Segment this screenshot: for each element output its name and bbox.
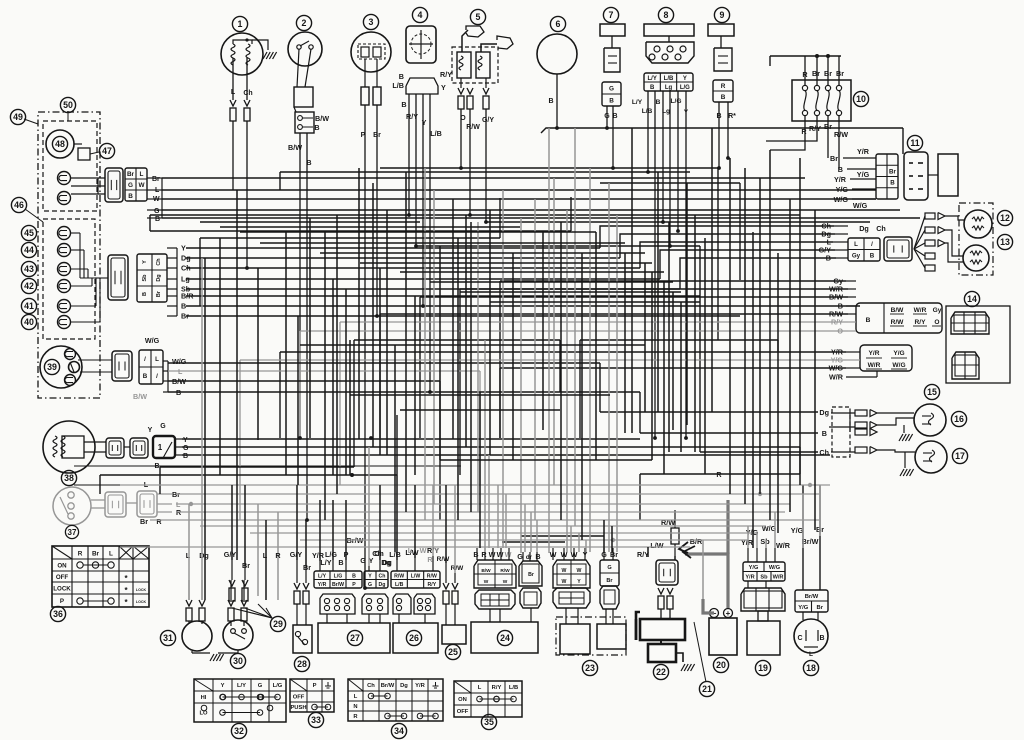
lamp connector block b bbox=[884, 237, 912, 261]
svg-text:R: R bbox=[716, 470, 722, 479]
wire vertical x669 harness bbox=[668, 222, 670, 452]
flasher relay 4 bbox=[412, 7, 427, 22]
connector block 14 labels bbox=[856, 303, 942, 333]
svg-text:L: L bbox=[231, 89, 236, 96]
svg-text:4: 4 bbox=[418, 10, 423, 20]
ground 30 bbox=[218, 650, 238, 653]
svg-text:26: 26 bbox=[409, 633, 419, 643]
svg-text:W/G: W/G bbox=[853, 201, 868, 210]
wire vertical x658 harness bbox=[657, 172, 659, 412]
bullets above 31 bbox=[186, 600, 192, 606]
svg-text:W: W bbox=[484, 579, 489, 585]
svg-text:21: 21 bbox=[702, 684, 712, 694]
svg-text:B: B bbox=[866, 317, 871, 324]
wire vertical x202 to bottom units bbox=[201, 258, 203, 600]
svg-text:R/W: R/W bbox=[891, 319, 905, 326]
wires into 27 bbox=[326, 614, 328, 623]
wire vertical x513 harness bbox=[512, 253, 514, 460]
wire horizontal y243 step bbox=[260, 242, 625, 244]
wires 39 to connector bbox=[78, 359, 112, 361]
circled label 36 bbox=[50, 606, 65, 621]
wire vertical x748 to bottom units bbox=[747, 526, 749, 548]
svg-text:Br: Br bbox=[140, 517, 148, 526]
wire vertical x537 to bottom units bbox=[536, 520, 538, 552]
connector above 19 bbox=[741, 588, 785, 611]
svg-text:Dg: Dg bbox=[379, 582, 386, 588]
svg-text:Y: Y bbox=[142, 260, 148, 264]
wire vertical x395 harness bbox=[394, 345, 396, 552]
wire vertical x310 harness bbox=[309, 218, 311, 438]
wire vertical x232 to bottom units bbox=[231, 485, 233, 560]
plug b 38 bbox=[130, 438, 148, 458]
wire vertical x681 harness bbox=[680, 302, 682, 452]
leader to 21 bbox=[694, 622, 706, 682]
wire vertical x298 harness bbox=[297, 316, 299, 485]
wire vertical x695 harness bbox=[694, 215, 696, 452]
circled label 11 bbox=[907, 135, 922, 150]
pickup coil box 47 bbox=[78, 148, 90, 160]
svg-text:G: G bbox=[609, 85, 614, 92]
wire vertical x346 harness bbox=[345, 289, 347, 475]
wire horizontal y232 step bbox=[240, 231, 596, 233]
lamp plug pairs bbox=[855, 410, 867, 416]
wire y183 bbox=[600, 182, 740, 184]
battery terminals bbox=[710, 609, 719, 618]
svg-text:G: G bbox=[160, 423, 166, 430]
plug a 38 bbox=[106, 438, 124, 458]
svg-text:B: B bbox=[656, 99, 661, 106]
wire vertical x612 to bottom units bbox=[611, 526, 613, 552]
wire y246 bbox=[416, 245, 700, 247]
wire vertical x760 harness bbox=[759, 178, 761, 494]
svg-text:R: R bbox=[721, 83, 726, 90]
alternator/CDI unit group outer dash-dot box (49) bbox=[38, 112, 100, 398]
svg-text:7: 7 bbox=[609, 10, 614, 20]
mid bus bracket bbox=[176, 248, 178, 316]
svg-text:B: B bbox=[890, 180, 895, 187]
svg-text:L: L bbox=[854, 241, 858, 248]
circled label 24 bbox=[497, 630, 512, 645]
connector G B under 7 bbox=[602, 82, 621, 106]
svg-text:22: 22 bbox=[656, 667, 666, 677]
svg-text:+: + bbox=[726, 609, 731, 618]
top bus L bbox=[162, 189, 876, 191]
wire vertical x453 harness bbox=[452, 199, 454, 439]
svg-text:B/W: B/W bbox=[481, 568, 491, 574]
ground under 16 bbox=[903, 425, 905, 433]
svg-text:B: B bbox=[338, 558, 343, 567]
svg-text:Ch: Ch bbox=[876, 224, 886, 233]
wire horizontal y302 step bbox=[490, 301, 700, 303]
bullet connectors under 1 bbox=[230, 100, 236, 106]
Y/R group lines bbox=[280, 351, 846, 353]
wire vertical x490 harness bbox=[489, 210, 491, 455]
svg-text:Y/G: Y/G bbox=[749, 565, 759, 571]
horn 30 (front) bbox=[223, 620, 253, 650]
svg-text:10: 10 bbox=[856, 94, 866, 104]
svg-text:33: 33 bbox=[311, 715, 321, 725]
wire vertical x434 harness bbox=[433, 190, 435, 504]
svg-text:Br: Br bbox=[303, 563, 311, 572]
wires 4 down bbox=[408, 94, 410, 215]
svg-text:W: W bbox=[503, 579, 508, 585]
svg-text:B: B bbox=[155, 216, 160, 223]
svg-text:Br: Br bbox=[817, 605, 824, 611]
svg-text:39: 39 bbox=[47, 362, 57, 372]
plug leads top of 5 bbox=[462, 30, 468, 52]
left lower buses W/G L B/W B bbox=[168, 362, 600, 364]
svg-text:46: 46 bbox=[14, 200, 24, 210]
svg-text:G/Y: G/Y bbox=[224, 550, 237, 559]
svg-text:49: 49 bbox=[13, 112, 23, 122]
svg-text:L/W: L/W bbox=[411, 574, 421, 580]
svg-text:B: B bbox=[650, 85, 655, 91]
circled label 17 bbox=[952, 448, 967, 463]
box 23b bbox=[597, 624, 626, 649]
E-coil a bbox=[58, 172, 71, 185]
bullets under 5 bbox=[458, 88, 464, 94]
svg-text:14: 14 bbox=[967, 294, 977, 304]
svg-text:Y: Y bbox=[148, 427, 153, 434]
svg-text:42: 42 bbox=[24, 281, 34, 291]
svg-text:12: 12 bbox=[1000, 213, 1010, 223]
circled label 30 bbox=[230, 653, 245, 668]
wire y215 long bbox=[150, 214, 800, 216]
svg-text:L/B: L/B bbox=[392, 81, 404, 90]
svg-text:G: G bbox=[128, 182, 133, 189]
turn switch unit 27 bbox=[318, 623, 390, 653]
bullets above 28 bbox=[294, 583, 300, 589]
rear brake switch 7 bbox=[603, 7, 618, 22]
wire vertical x425 harness bbox=[424, 168, 426, 520]
meter lamps group 12 13 bbox=[959, 203, 993, 275]
bus bracket wires bbox=[161, 178, 163, 218]
neutral lamp 16 bbox=[914, 404, 946, 436]
wire vertical x387 harness bbox=[386, 210, 388, 455]
svg-text:Br: Br bbox=[242, 561, 250, 570]
svg-text:30: 30 bbox=[233, 656, 243, 666]
svg-text:O: O bbox=[934, 319, 939, 326]
svg-text:B: B bbox=[142, 292, 148, 296]
svg-text:L/B: L/B bbox=[664, 76, 674, 82]
svg-text:35: 35 bbox=[484, 717, 494, 727]
wire vertical x652 harness bbox=[651, 272, 653, 460]
svg-text:13: 13 bbox=[1000, 237, 1010, 247]
svg-text:23: 23 bbox=[585, 663, 595, 673]
svg-text:B: B bbox=[183, 453, 188, 460]
svg-text:LOCK: LOCK bbox=[136, 600, 147, 604]
circled label 25 bbox=[445, 644, 460, 659]
svg-text:36: 36 bbox=[53, 609, 63, 619]
arrow marks bbox=[683, 546, 695, 558]
svg-text:W: W bbox=[562, 568, 567, 574]
wire vertical x586 to bottom units bbox=[585, 540, 587, 552]
svg-text:Y/G: Y/G bbox=[791, 526, 804, 535]
svg-text:HI: HI bbox=[201, 695, 207, 701]
circled label 47 bbox=[99, 143, 114, 158]
svg-text:W: W bbox=[562, 579, 567, 585]
svg-text:W/G: W/G bbox=[769, 565, 780, 571]
svg-text:R/Y: R/Y bbox=[428, 582, 437, 588]
wire vertical x333 to bottom units bbox=[332, 500, 334, 560]
svg-text:R/Y: R/Y bbox=[492, 685, 502, 691]
wire vertical x664 harness bbox=[663, 282, 665, 474]
svg-text:Y: Y bbox=[183, 437, 188, 444]
wire horizontal y253 step bbox=[320, 252, 645, 254]
svg-text:31: 31 bbox=[163, 633, 173, 643]
svg-text:R/W: R/W bbox=[834, 130, 848, 139]
wire vertical x579 to bottom units bbox=[578, 533, 580, 552]
wire vertical x815 harness bbox=[814, 210, 816, 530]
dimmer switch table 32 bbox=[194, 679, 286, 722]
wire vertical x521 harness bbox=[520, 218, 522, 553]
wire vertical x346 to bottom units bbox=[345, 500, 347, 560]
brake light unit 19 bbox=[747, 621, 780, 655]
svg-text:29: 29 bbox=[273, 619, 283, 629]
svg-text:W: W bbox=[420, 546, 427, 555]
connector housing 39 bbox=[112, 351, 132, 381]
svg-text:OFF: OFF bbox=[56, 574, 69, 581]
circled label 14 bbox=[964, 291, 979, 306]
lamp feed wires from left bbox=[690, 411, 818, 413]
regulator 24 bbox=[471, 622, 538, 653]
G Br label block for 23 bbox=[600, 560, 619, 586]
wire vertical x297 to bottom units bbox=[296, 485, 298, 560]
wire vertical x350 harness bbox=[349, 340, 351, 475]
svg-text:L/B: L/B bbox=[395, 582, 404, 588]
svg-text:R/W: R/W bbox=[451, 565, 465, 572]
svg-text:R: R bbox=[275, 551, 281, 560]
six pickup E-coils 40-45 bbox=[58, 227, 71, 240]
circled label 12 bbox=[997, 210, 1012, 225]
svg-text:L/Y: L/Y bbox=[237, 683, 246, 689]
wire horizontal y345 step bbox=[300, 344, 645, 346]
circled label 46 bbox=[11, 197, 26, 212]
wire vertical x433 to bottom units bbox=[432, 485, 434, 556]
svg-text:Br/W: Br/W bbox=[805, 594, 819, 600]
wire vertical x645 harness bbox=[644, 263, 646, 412]
flasher unit 26 bbox=[393, 623, 438, 653]
wire vertical x531 to bottom units bbox=[530, 512, 532, 552]
mid buses Y Dg Ch Lg Sb B/R B Br bbox=[186, 247, 600, 249]
wire vertical x571 to bottom units bbox=[570, 526, 572, 552]
wire vertical x380 to bottom units bbox=[379, 485, 381, 560]
svg-text:B: B bbox=[609, 97, 614, 104]
wire vertical x237 harness bbox=[236, 190, 238, 560]
svg-text:40: 40 bbox=[24, 317, 34, 327]
svg-text:W/R: W/R bbox=[914, 307, 927, 314]
svg-text:Dg: Dg bbox=[199, 551, 209, 560]
svg-text:27: 27 bbox=[350, 633, 360, 643]
svg-text:ON: ON bbox=[57, 563, 67, 570]
wire vertical x489 to bottom units bbox=[488, 455, 490, 548]
svg-text:dr: dr bbox=[526, 554, 533, 561]
svg-text:B/R: B/R bbox=[690, 537, 703, 546]
svg-text:44: 44 bbox=[24, 245, 34, 255]
svg-text:Dg: Dg bbox=[382, 558, 392, 567]
gray harness horizontals bbox=[120, 484, 830, 486]
junction dots on buses bbox=[245, 266, 249, 270]
wire vertical x415 to bottom units bbox=[414, 485, 416, 558]
connectors above 27 bbox=[320, 594, 355, 614]
svg-text:Br: Br bbox=[889, 168, 896, 175]
svg-text:50: 50 bbox=[63, 100, 73, 110]
wires 23 connectors to boxes bbox=[565, 608, 567, 624]
svg-text:Br: Br bbox=[836, 69, 844, 78]
ground under 17 bbox=[904, 452, 906, 468]
wire vertical x359 harness bbox=[358, 168, 360, 439]
E-coil b bbox=[58, 192, 71, 205]
right Gy WR BW RW lines bbox=[500, 280, 846, 282]
connector above 24a label block bbox=[474, 560, 516, 588]
wires from 8 bbox=[647, 91, 649, 172]
wire vertical x730 harness bbox=[729, 158, 731, 494]
wire vertical x415 harness bbox=[414, 296, 416, 475]
connector above 24b Br block bbox=[519, 561, 542, 586]
svg-text:B: B bbox=[401, 100, 406, 109]
bold main connector 1 bbox=[153, 436, 175, 458]
svg-text:B: B bbox=[822, 429, 827, 438]
svg-text:L: L bbox=[109, 551, 113, 558]
misc mid horizontals bbox=[354, 339, 560, 341]
lighting switch table 35 bbox=[454, 681, 522, 717]
circled label 50 bbox=[60, 97, 75, 112]
svg-text:Y/G: Y/G bbox=[893, 350, 904, 357]
sleeves under 3 bbox=[361, 87, 369, 105]
wire vertical x712 harness bbox=[711, 128, 713, 412]
svg-text:Y: Y bbox=[577, 579, 581, 585]
svg-text:R: R bbox=[78, 551, 83, 558]
svg-text:B: B bbox=[128, 193, 133, 200]
svg-text:Y/R: Y/R bbox=[834, 175, 847, 184]
wire vertical x673 harness bbox=[672, 292, 674, 430]
label block above 26 bbox=[391, 571, 440, 588]
gray dots bbox=[758, 492, 762, 496]
magneto flywheel 38 bbox=[43, 421, 95, 473]
wire vertical x596 harness bbox=[595, 232, 597, 460]
svg-text:G: G bbox=[607, 565, 611, 571]
svg-text:Ch: Ch bbox=[243, 90, 252, 97]
svg-text:15: 15 bbox=[927, 387, 937, 397]
top bus W bbox=[162, 198, 876, 200]
svg-text:R/Y: R/Y bbox=[406, 112, 418, 121]
wire vertical x471 harness bbox=[470, 222, 472, 512]
svg-text:L: L bbox=[408, 546, 413, 555]
svg-text:9: 9 bbox=[720, 10, 725, 20]
bold cable 22 bbox=[636, 612, 640, 640]
svg-text:R*: R* bbox=[728, 113, 736, 120]
connector 14b bbox=[952, 352, 979, 379]
svg-text:LOCK: LOCK bbox=[53, 586, 71, 593]
wire vertical x397 to bottom units bbox=[396, 475, 398, 560]
circled label 23 bbox=[582, 660, 597, 675]
wire vertical x604 to bottom units bbox=[603, 520, 605, 552]
svg-text:P: P bbox=[313, 683, 317, 689]
wire vertical x632 harness bbox=[631, 128, 633, 433]
wire vertical x205 harness bbox=[204, 258, 206, 600]
svg-text:G: G bbox=[183, 445, 189, 452]
ground at coil 1 bbox=[263, 52, 267, 59]
terminal box with B/W B bbox=[295, 112, 314, 133]
diode block 25 bbox=[442, 625, 466, 644]
wire horizontal y227 step bbox=[220, 226, 520, 228]
ignition coil 1 bbox=[232, 16, 247, 31]
svg-text:G: G bbox=[258, 683, 263, 689]
svg-text:37: 37 bbox=[68, 528, 77, 537]
box 23a bbox=[560, 624, 590, 654]
main switch table 36 bbox=[52, 546, 149, 607]
handlebar switch outline box 14 bbox=[946, 306, 1010, 383]
wire vertical x648 to bottom units bbox=[647, 547, 649, 557]
wire vertical x406 harness bbox=[405, 172, 407, 512]
ignition switch 8 box bbox=[658, 7, 673, 22]
wire vertical x803 to bottom units bbox=[802, 494, 804, 548]
wire vertical x543 harness bbox=[542, 232, 544, 430]
svg-text:Y: Y bbox=[422, 118, 427, 127]
svg-text:19: 19 bbox=[758, 663, 768, 673]
relay a bbox=[457, 52, 471, 78]
ground at 22 bbox=[676, 653, 683, 662]
svg-text:Br: Br bbox=[606, 578, 613, 584]
svg-text:L/G: L/G bbox=[273, 683, 283, 689]
circled label 38 bbox=[61, 470, 76, 485]
rotated label block Y Dg Ch Lg Sb B/R bbox=[137, 254, 167, 302]
circled label 19 bbox=[755, 660, 770, 675]
svg-text:G: G bbox=[154, 208, 160, 215]
bullets for 29 bbox=[229, 580, 235, 586]
svg-text:W: W bbox=[497, 550, 504, 559]
svg-text:Y: Y bbox=[368, 574, 372, 580]
svg-text:Dg: Dg bbox=[156, 274, 162, 281]
circled label 48 bbox=[52, 136, 67, 151]
svg-text:20: 20 bbox=[716, 660, 726, 670]
svg-text:34: 34 bbox=[394, 726, 404, 736]
rectifier plug housing bbox=[553, 588, 590, 608]
svg-text:B/W: B/W bbox=[891, 307, 905, 314]
battery 20 bbox=[709, 618, 737, 655]
svg-text:Y/R: Y/R bbox=[415, 683, 425, 689]
svg-text:Br: Br bbox=[812, 69, 820, 78]
circled label 28 bbox=[294, 656, 309, 671]
wire vertical x446 to bottom units bbox=[445, 485, 447, 563]
coil wires to connector 2 bbox=[71, 232, 80, 234]
svg-text:R/W: R/W bbox=[427, 574, 437, 580]
wire horizontal y222 step bbox=[200, 221, 420, 223]
wire vertical x506 to bottom units bbox=[505, 494, 507, 548]
wires L Ch from coil 1 bbox=[232, 58, 234, 100]
wire vertical x220 harness bbox=[219, 238, 221, 475]
svg-text:Y: Y bbox=[441, 83, 446, 92]
svg-text:Y: Y bbox=[435, 546, 440, 555]
circled label 37 bbox=[65, 525, 78, 538]
wire vertical x333 harness bbox=[332, 279, 334, 475]
svg-text:L/Y: L/Y bbox=[318, 574, 327, 580]
wire vertical x757 to bottom units bbox=[756, 533, 758, 548]
svg-text:L/B: L/B bbox=[642, 108, 653, 115]
svg-text:L: L bbox=[478, 685, 482, 691]
svg-text:C: C bbox=[797, 635, 802, 642]
circled label 22 bbox=[653, 664, 668, 679]
wire vertical x480 to bottom units bbox=[479, 392, 481, 548]
svg-text:B: B bbox=[548, 98, 553, 105]
wires 31 bbox=[191, 651, 193, 653]
wires from 48/coils to connector bbox=[71, 177, 105, 179]
bullets under relay bbox=[658, 588, 664, 594]
wire vertical x705 harness bbox=[704, 238, 706, 474]
wires into 18 bbox=[802, 485, 804, 590]
svg-text:1: 1 bbox=[238, 19, 243, 29]
svg-text:LO: LO bbox=[199, 711, 208, 717]
